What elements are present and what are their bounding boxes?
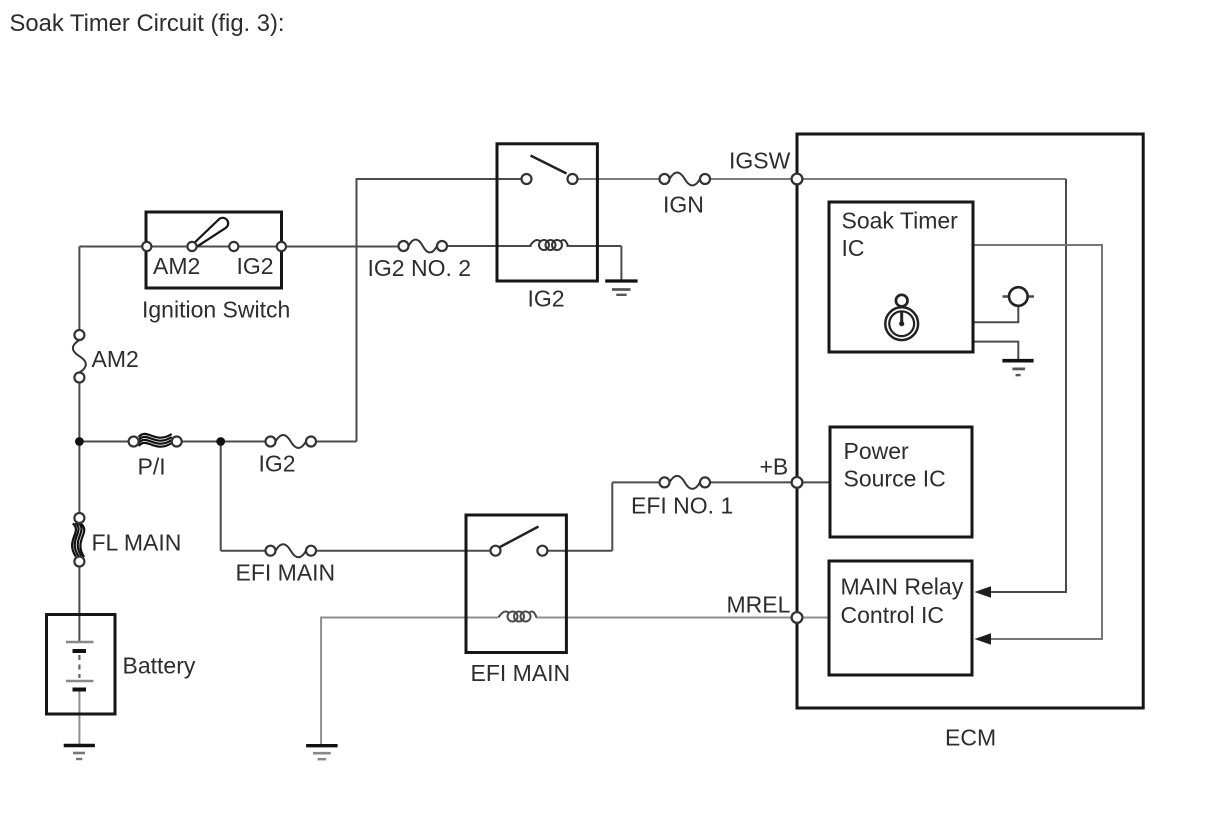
svg-text:Power: Power xyxy=(844,438,910,464)
svg-text:IGN: IGN xyxy=(663,192,704,218)
svg-text:IG2: IG2 xyxy=(237,253,274,279)
fuse EFI NO. 1 xyxy=(670,476,701,489)
ECM box xyxy=(797,134,1143,708)
wire vertical riser x356 xyxy=(356,178,358,442)
svg-text:FL MAIN: FL MAIN xyxy=(92,530,182,556)
battery dashed center xyxy=(78,655,80,678)
ignition switch terminal circles xyxy=(142,242,151,251)
node +B xyxy=(792,477,803,488)
stopwatch icon xyxy=(885,295,918,340)
Soak Timer IC box xyxy=(829,202,973,352)
svg-text:AM2: AM2 xyxy=(153,253,200,279)
fusible link P/I xyxy=(139,434,172,447)
svg-text:IG2: IG2 xyxy=(259,451,296,477)
svg-text:EFI MAIN: EFI MAIN xyxy=(236,560,336,586)
battery plate short bottom xyxy=(73,688,87,692)
battery box xyxy=(47,615,116,715)
battery plate long top xyxy=(66,641,94,643)
wire row C (P/I, IG2 fuse row) xyxy=(79,441,138,443)
svg-text:MREL: MREL xyxy=(727,592,791,618)
svg-text:IC: IC xyxy=(842,235,865,261)
ground below battery xyxy=(64,746,95,760)
ground right of relay IG2 xyxy=(605,281,637,295)
battery plate long bottom xyxy=(66,680,94,682)
wire row E (+B row with EFI NO.1 fuse) xyxy=(612,481,669,483)
wire IG2 relay coil to ground drop xyxy=(620,246,622,280)
fuse IG2 (row C) xyxy=(276,435,307,448)
wire row D (EFI MAIN fuse and relay switch) xyxy=(221,550,276,552)
ground below connector (soak timer) xyxy=(1002,361,1033,375)
ignition switch lever blade xyxy=(193,218,229,248)
svg-text:EFI MAIN: EFI MAIN xyxy=(471,660,571,686)
fusible link FL MAIN xyxy=(72,523,84,557)
node MREL xyxy=(792,612,803,623)
arrow 1 into MAIN relay IC xyxy=(975,586,992,597)
wire battery to ground xyxy=(78,690,80,746)
relay EFI MAIN switch circles xyxy=(491,546,501,556)
fuse AM2 (vertical) xyxy=(73,340,86,373)
svg-text:ECM: ECM xyxy=(945,725,996,751)
connector circle symbol xyxy=(1003,295,1035,297)
arrow 2 into MAIN relay IC xyxy=(975,633,992,644)
wire left battery column vertical xyxy=(78,247,80,337)
svg-text:+B: +B xyxy=(760,454,789,480)
wire gray ground riser x321 xyxy=(320,617,322,746)
svg-text:Soak Timer: Soak Timer xyxy=(842,208,959,234)
wire row A (IG2 relay switch row) xyxy=(356,178,527,180)
svg-text:Ignition Switch: Ignition Switch xyxy=(142,297,290,323)
wire +B node to Power Source IC xyxy=(797,481,830,483)
relay IG2 switch blade xyxy=(531,156,567,174)
relay IG2 coil xyxy=(530,240,568,250)
junction dot left xyxy=(75,437,84,446)
svg-text:Soak Timer Circuit (fig. 3):: Soak Timer Circuit (fig. 3): xyxy=(10,10,285,37)
relay EFI MAIN switch blade xyxy=(500,527,539,548)
wire junction drop to EFI MAIN row xyxy=(220,442,222,551)
ignition switch box xyxy=(146,212,282,288)
svg-text:P/I: P/I xyxy=(138,454,166,480)
relay EFI MAIN coil (gray) xyxy=(499,612,537,622)
fuse EFI MAIN xyxy=(276,544,307,557)
wire soak timer pin to ground xyxy=(973,342,1018,361)
relay IG2 switch circles xyxy=(522,174,532,184)
svg-text:AM2: AM2 xyxy=(92,346,139,372)
fuse IG2 NO. 2 xyxy=(409,240,438,253)
svg-text:IGSW: IGSW xyxy=(729,148,791,174)
svg-text:EFI NO. 1: EFI NO. 1 xyxy=(631,493,733,519)
wire soak timer pin to connector symbol xyxy=(973,297,1018,322)
wire ECM soak timer to arrow 2 (gray) xyxy=(973,245,1102,639)
wire row B horizontal (battery column to IG2 relay coil) xyxy=(79,246,399,248)
fuse IGN xyxy=(670,173,701,186)
svg-text:MAIN Relay: MAIN Relay xyxy=(841,574,964,600)
svg-text:Source IC: Source IC xyxy=(844,466,946,492)
MAIN Relay Control IC box xyxy=(829,561,972,675)
svg-text:Control IC: Control IC xyxy=(841,602,945,628)
wire ECM IGSW to arrow 1 xyxy=(797,178,1066,180)
svg-text:Battery: Battery xyxy=(123,653,196,679)
svg-text:IG2 NO. 2: IG2 NO. 2 xyxy=(368,255,472,281)
junction dot right xyxy=(216,437,225,446)
Power Source IC box xyxy=(830,427,972,537)
wire vertical x612 to +B row xyxy=(611,482,613,550)
relay EFI MAIN box xyxy=(466,515,566,653)
ground below EFI MAIN coil riser xyxy=(306,746,338,760)
wire row F gray (MREL row through EFI MAIN coil) xyxy=(321,617,498,619)
battery plate short top xyxy=(73,649,87,653)
svg-text:IG2: IG2 xyxy=(528,286,565,312)
node IGSW xyxy=(792,174,803,185)
relay IG2 box xyxy=(497,144,597,281)
